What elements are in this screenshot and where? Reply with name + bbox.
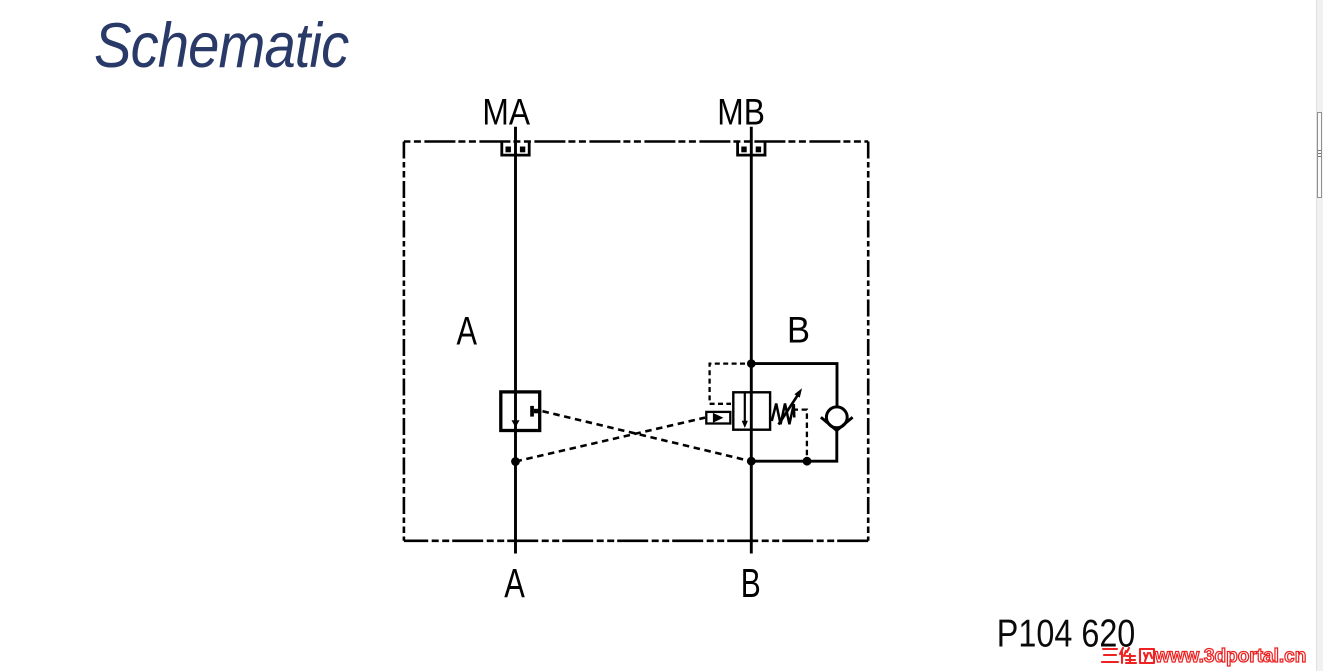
spring S1 (adjustable) [772, 404, 795, 425]
title Schematic [94, 10, 348, 82]
pilot line V2 (dashed rectangle from B top junction) [710, 364, 745, 404]
valve V1 flow arrow [512, 420, 520, 427]
svg-text:B: B [741, 560, 761, 606]
enclosure border (dash-dot) [404, 142, 868, 541]
check valve CV1 [826, 407, 847, 428]
junction dot drain [803, 457, 812, 466]
svg-text:MA: MA [482, 91, 530, 133]
junction dot B top [747, 359, 756, 368]
svg-text:A: A [504, 560, 525, 606]
valve V2 body [733, 392, 770, 429]
valve V2 divider + flow arrow [744, 392, 746, 421]
spring adjust arrow [779, 396, 798, 425]
watermark (latin part) [1155, 646, 1306, 668]
wire check-valve branch top [751, 364, 837, 407]
svg-text:MB: MB [717, 91, 765, 133]
pilot line X1 (V1 tab to B bottom junction, dashed) [543, 411, 752, 461]
valve V2 pilot triangle [713, 413, 724, 423]
pilot drain line (dashed, spring to drain junction) [793, 410, 807, 457]
junction dot B bottom [747, 457, 756, 466]
valve V1 pilot tab [530, 406, 541, 417]
wire line B (vertical) [750, 127, 753, 554]
scrollbar thumb [1317, 112, 1322, 198]
measuring port MB (bracket + plugs) [738, 142, 765, 156]
watermark (chinese chars drawn as SVG) [1101, 644, 1157, 668]
valve V1 body [501, 392, 540, 431]
valve V2 pilot box [706, 412, 730, 424]
svg-text:A: A [457, 310, 478, 354]
scrollbar track [1316, 0, 1323, 671]
pilot line X2 (A junction to V2 pilot box, dashed) [516, 418, 706, 462]
junction dot on line A [511, 457, 520, 466]
wire line A (vertical) [514, 127, 517, 554]
measuring port MA (bracket + plugs) [502, 142, 529, 156]
wire check-valve branch bottom [751, 431, 837, 462]
svg-text:B: B [787, 310, 810, 351]
